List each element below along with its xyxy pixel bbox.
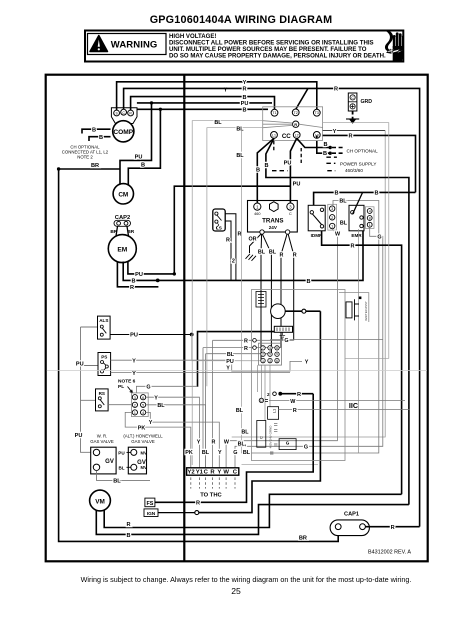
wire B stub CH optional upper [82,129,111,133]
svg-text:GV: GV [105,459,114,465]
note CH OPTIONAL CONNECTED [62,145,109,160]
svg-text:BL: BL [202,450,210,456]
svg-text:L1: L1 [272,408,277,413]
svg-text:B: B [323,151,327,157]
svg-text:Y: Y [149,420,153,426]
svg-text:LS: LS [216,226,222,231]
contactor CC terminal L1 [271,132,278,139]
wire R stat [213,340,294,468]
svg-text:B: B [264,163,268,169]
svg-text:2: 2 [134,403,136,407]
svg-text:R: R [226,238,230,244]
svg-text:6: 6 [142,396,144,400]
svg-text:3: 3 [269,359,271,363]
svg-text:G: G [233,450,237,456]
node junction BR [57,167,60,170]
svg-text:Y: Y [218,450,222,456]
svg-text:R: R [391,525,395,531]
capacitor CAP2 symbol [114,220,131,226]
wire B from L3 to CH optional [317,141,330,153]
svg-text:DO SO MAY CAUSE PROPERTY DAMAG: DO SO MAY CAUSE PROPERTY DAMAGE, PERSONA… [169,52,386,59]
wire BL stat [206,354,272,468]
svg-text:VM: VM [95,498,105,505]
svg-text:1: 1 [262,359,264,363]
terminal 2 with R wire [267,392,313,398]
svg-text:R: R [130,285,134,291]
wire diagonal R to CC T2 [296,88,308,109]
svg-text:G: G [304,445,308,451]
dashed leads below strip [191,477,235,488]
svg-text:T1: T1 [272,111,276,115]
svg-text:B: B [334,191,338,197]
wire R from LS upper [225,214,236,281]
svg-text:PU: PU [226,359,234,365]
thin trunk BL mid [241,128,243,453]
terminal strip box [187,468,239,476]
thin wire from coil to right nest [323,123,389,359]
svg-text:R: R [297,392,301,398]
svg-text:CC: CC [282,133,291,140]
svg-text:PK: PK [138,425,146,431]
svg-text:R: R [212,440,216,446]
svg-text:MV: MV [141,465,147,470]
wire PU from L2 to TRANS C [290,138,296,202]
svg-text:BL: BL [157,403,165,409]
svg-text:PU: PU [241,101,249,107]
wire B diag from L2 to CH optional [297,138,331,147]
svg-text:W: W [290,399,296,405]
wire R from CC L3 to right vertical [317,135,416,192]
wire from igniter to IGN terminal [285,310,302,312]
svg-text:BL: BL [241,429,249,435]
gas valve GV (W.R.) [91,447,116,474]
contactor CC terminal T3 [313,109,320,116]
node junction B drop to CM [159,108,162,111]
wire CAP2 right lead [127,226,129,236]
warning outer box [85,31,403,62]
wire Y from PS upper [111,360,302,371]
board outline [252,290,346,461]
wire OR from TRANS secondary [250,234,262,253]
svg-text:IGNITER ASSY: IGNITER ASSY [364,301,368,321]
center divider line [183,75,185,562]
relay IDMR box [308,205,325,231]
wire BL from GV bottom [97,471,151,481]
svg-text:PU: PU [118,450,125,455]
svg-text:G: G [284,338,288,344]
wire G from board [270,339,383,341]
contactor CC terminal L2 [293,132,300,139]
svg-text:R: R [280,253,284,259]
outer diagram border [46,75,428,562]
warning triangle icon [90,36,108,52]
wire PU stub to ALT GV [127,451,131,453]
svg-text:460: 460 [254,212,260,216]
svg-text:7: 7 [262,346,264,350]
wire B from COMP terminal R to CC T1 [131,97,275,110]
svg-text:CM: CM [118,192,128,199]
svg-text:GAS VALVE: GAS VALVE [131,439,155,444]
svg-text:B: B [99,135,103,141]
svg-text:B: B [242,95,246,101]
svg-text:12: 12 [260,399,264,403]
wire PU drop into CM [120,103,152,184]
svg-text:BL: BL [113,479,121,485]
svg-text:PU: PU [76,362,84,368]
svg-text:24V: 24V [269,225,278,230]
svg-text:R: R [348,134,352,140]
warning hand-shock icon [385,30,404,61]
pin 12 with W wire [259,398,405,405]
wire BL from pin3 [242,201,379,454]
coil thin fan wires left [263,121,293,128]
svg-text:BL: BL [258,249,266,255]
svg-text:3: 3 [331,207,333,211]
svg-text:3: 3 [134,396,136,400]
svg-text:25: 25 [231,586,241,596]
svg-text:IIC: IIC [349,401,358,410]
svg-text:Y: Y [217,470,221,476]
evaporator motor EM [108,235,136,263]
svg-text:COMP: COMP [113,129,133,136]
svg-text:R: R [293,253,297,259]
wire B bus from EM to EMR [123,231,363,281]
spark electrodes [346,297,368,321]
svg-text:R: R [334,87,338,93]
wire RS to PL [108,404,131,406]
svg-text:G: G [286,441,290,446]
condenser motor CM [113,184,133,204]
wire R from TRANS secondary [281,234,287,347]
svg-text:G: G [146,385,150,391]
wire Y from COMP terminal S to CC T3 [117,82,317,110]
svg-text:PL: PL [118,384,124,390]
wire R from CAP1 [365,526,419,528]
contactor CC terminal L3 [313,132,320,139]
wire PU from ALS to junction [110,334,192,336]
svg-text:CH OPTIONAL: CH OPTIONAL [347,148,379,153]
gas valve GV (ALT) [128,447,147,474]
svg-text:(ALT.) HONEYWELL: (ALT.) HONEYWELL [123,433,163,438]
wire BL stub to ALT GV [127,466,131,468]
svg-text:PU: PU [130,333,138,339]
svg-text:4: 4 [369,210,371,214]
svg-text:GRD: GRD [361,99,373,105]
svg-text:IGN: IGN [147,511,156,517]
svg-text:R: R [242,87,246,93]
svg-text:C: C [351,96,354,100]
svg-text:T2: T2 [294,111,298,115]
component L1 box [268,407,410,420]
svg-text:2: 2 [262,353,264,357]
compressor COMP [113,121,134,142]
svg-text:BL: BL [236,153,244,159]
svg-text:PU: PU [75,433,83,439]
wire from IGN with terminal [158,512,195,514]
svg-text:Wiring is subject to change. A: Wiring is subject to change. Always refe… [81,575,412,584]
tall connector box [257,421,266,448]
node junction PU drop to CM [150,101,153,104]
svg-text:R: R [293,408,297,414]
svg-text:BL: BL [214,120,222,126]
svg-text:NOTE 2: NOTE 2 [77,155,93,160]
wire R2 stat [203,348,281,452]
svg-text:BL: BL [118,465,124,470]
svg-text:R: R [350,243,354,249]
capacitor CAP1 symbol [330,520,369,536]
svg-text:460V 24V GRND: 460V 24V GRND [269,425,273,449]
svg-text:B: B [256,168,260,174]
svg-text:R: R [196,500,200,506]
svg-text:BL: BL [236,408,244,414]
svg-text:9: 9 [276,353,278,357]
wire BL from PL pin5 [146,405,206,468]
wire Y from CC L3 right [323,130,386,132]
svg-text:B: B [242,108,246,114]
vent motor VM [90,490,111,511]
thin trunk BL left [192,121,263,465]
svg-text:Y: Y [132,371,136,377]
compressor terminal plate [111,108,137,124]
svg-text:RS: RS [99,391,105,396]
thin line under IIC [242,464,319,466]
svg-text:2: 2 [331,216,333,220]
svg-text:C: C [259,436,264,439]
svg-text:CAP1: CAP1 [344,511,359,517]
svg-text:Y2: Y2 [187,470,195,476]
ground arrow under GRD [346,112,359,124]
wire R from COMP terminal C to right side [124,88,420,526]
svg-text:R: R [294,122,297,127]
svg-text:Y: Y [333,129,337,135]
small box top-left [256,292,266,308]
wire CAP2 left lead [116,226,118,236]
svg-text:L1: L1 [272,133,276,137]
wire BR horizontal [59,168,120,170]
svg-text:B: B [92,127,96,133]
svg-text:NOTE 6: NOTE 6 [118,378,136,384]
contactor CC terminal T2 [292,109,299,116]
svg-text:GAS VALVE: GAS VALVE [90,439,114,444]
wire G from PL pin6 [136,386,197,393]
svg-text:MV: MV [141,450,147,455]
svg-text:BL: BL [236,126,244,132]
svg-text:TO THC: TO THC [200,493,222,499]
switch LS box [213,209,225,231]
svg-text:BL: BL [243,450,251,456]
svg-text:T3: T3 [315,111,319,115]
G terminal box [279,439,296,450]
svg-text:BR: BR [299,536,307,542]
svg-text:B: B [126,533,130,539]
svg-text:8: 8 [276,346,278,350]
wire W from pin1 [226,229,337,468]
wire Y from PS lower [111,371,290,373]
wire R stub from EM [117,262,158,287]
warning inner box [88,34,167,55]
contactor CC box [263,107,323,141]
svg-text:Y: Y [305,360,309,366]
svg-text:R: R [238,231,242,237]
wire BR vertical long to CAP1 [59,169,339,541]
svg-text:BL: BL [227,352,235,358]
wire PU stat [192,335,261,361]
relay EMR box [349,192,364,230]
svg-text:5: 5 [142,403,144,407]
wire B from L1 down right side [266,138,409,504]
svg-text:BL: BL [269,249,277,255]
wire PU (top) to CM [137,102,272,104]
svg-text:GPG10601404A WIRING DIAGRAM: GPG10601404A WIRING DIAGRAM [150,14,333,26]
svg-text:4: 4 [142,411,144,415]
wire B to IDMR [314,192,416,205]
wire from EMR pin col bottom [358,229,360,453]
thick wire from junction area down [198,332,275,387]
igniter circle [271,304,286,319]
svg-text:2: 2 [232,258,235,264]
svg-text:B: B [131,279,135,285]
svg-text:2: 2 [267,392,270,397]
svg-text:Y1: Y1 [196,470,204,476]
svg-text:PU: PU [135,272,143,278]
svg-text:8: 8 [369,217,371,221]
svg-text:BL,: BL, [238,442,247,448]
relay pin block 3-2-1 [328,204,337,230]
svg-text:4: 4 [269,346,271,350]
switch RS [96,389,109,411]
svg-text:1: 1 [134,411,136,415]
grid connector [259,343,282,365]
svg-text:B4312002 REV. A: B4312002 REV. A [368,550,411,556]
wire R from relays to right vertical [322,231,402,495]
svg-text:EM: EM [117,246,127,253]
switch PS [98,353,111,376]
wire B stub CH optional lower [89,137,111,141]
svg-text:Y: Y [132,358,136,364]
svg-text:WARNING: WARNING [111,40,158,51]
chassis ground hatch [246,254,257,261]
svg-text:BR: BR [91,163,99,169]
switch ALS [98,316,111,339]
svg-text:B: B [306,279,310,285]
igniter IGN box [144,509,158,517]
svg-text:W. R.: W. R. [97,433,108,438]
spark box [274,326,292,339]
wire G from EMR pins down [235,227,383,468]
thin trunk BL left 2 [207,128,263,387]
dashed power supply leads [273,141,275,152]
svg-text:ALS: ALS [99,318,108,323]
svg-text:FS: FS [146,501,153,507]
wire PU from EM to TRANS-C node [128,186,291,274]
svg-text:G: G [377,235,381,241]
contactor CC coil [293,121,299,127]
svg-text:C: C [289,212,292,216]
wire B from L1 to TRANS 460 [257,138,274,202]
svg-text:C: C [233,470,238,476]
wire R from VM [104,494,401,527]
svg-text:Y: Y [197,440,201,446]
contactor CC terminal T1 [271,109,278,116]
wire Y from PL pin6 right [146,397,200,468]
wire BL from TRANS secondary to PU row [260,234,263,361]
svg-text:TRANS: TRANS [262,218,283,225]
svg-text:C: C [204,470,209,476]
dash stubs [270,424,277,454]
svg-text:R: R [244,339,248,345]
svg-text:PS: PS [101,354,107,359]
svg-text:BL: BL [339,199,347,205]
transformer TRANS box [248,201,298,235]
wire R2 from TRANS secondary [288,234,294,340]
svg-text:L2: L2 [295,133,299,137]
svg-text:1: 1 [331,225,333,229]
svg-text:EMR: EMR [351,233,362,238]
wire R from LS lower [225,221,231,280]
svg-text:6: 6 [276,359,278,363]
svg-text:R: R [244,346,248,352]
connector PL box [132,393,149,417]
svg-text:PK: PK [185,450,193,456]
svg-text:PU: PU [284,160,292,166]
grid connector tails [258,365,271,420]
relay EMR pin block [365,207,374,229]
svg-text:1: 1 [369,223,371,227]
svg-text:Y: Y [154,395,158,401]
wire PU bus ALS/PS/RS [81,327,94,452]
arrow to PL [128,387,133,393]
svg-text:PU: PU [293,181,301,187]
svg-text:B: B [374,191,378,197]
wire B drop into CM [128,109,160,185]
svg-text:B: B [141,162,145,168]
wire PK loop from PL pin1 [125,412,191,467]
wire R from FS to IIC [155,394,313,503]
svg-text:R: R [210,470,215,476]
thin horizontal cabinet line [47,369,427,371]
ground block GRD [348,93,372,111]
svg-text:W: W [223,470,229,476]
svg-text:PU: PU [135,155,143,161]
svg-text:R: R [126,522,130,528]
svg-text:5: 5 [269,353,271,357]
svg-text:B: B [323,142,327,148]
svg-text:BL: BL [340,221,348,227]
wire B (2nd) to CM [137,108,268,110]
svg-text:OR: OR [248,236,256,242]
coil thin wire right [299,124,323,127]
wire B from VM [96,505,409,535]
flame sensor FS box [145,498,155,507]
svg-text:POWER SUPPLY: POWER SUPPLY [340,162,376,167]
svg-text:460/3/60: 460/3/60 [345,168,363,173]
board outline extension [339,293,369,322]
wire BL2 from TRANS secondary [262,234,271,354]
svg-text:Y: Y [243,80,247,86]
wire Y2 loop from PL pin4 [146,412,220,467]
